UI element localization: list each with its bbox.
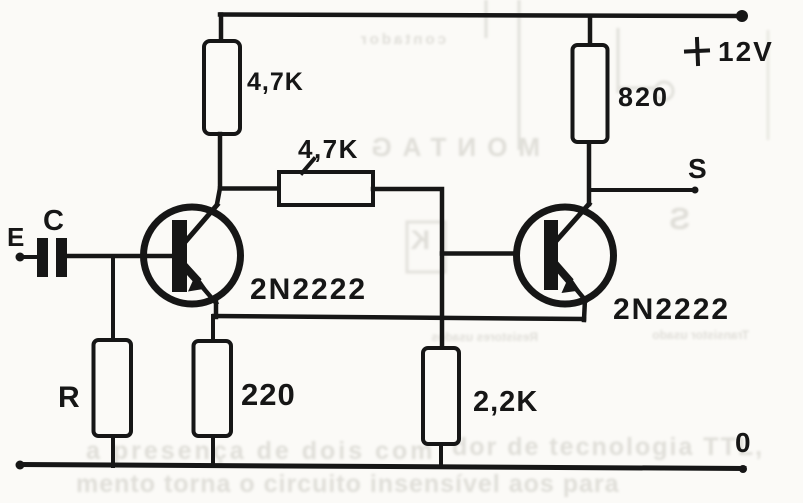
svg-text:2N2222: 2N2222 [250, 273, 367, 306]
svg-text:2N2222: 2N2222 [613, 293, 730, 326]
svg-text:E: E [7, 222, 24, 252]
svg-text:2,2K: 2,2K [473, 386, 538, 418]
svg-text:12V: 12V [718, 36, 774, 67]
svg-text:220: 220 [241, 377, 296, 412]
svg-text:C: C [43, 205, 64, 237]
svg-text:MONTAG: MONTAG [360, 132, 540, 162]
svg-text:contador: contador [358, 31, 446, 48]
svg-text:S: S [688, 153, 707, 184]
svg-text:4,7K: 4,7K [298, 134, 359, 164]
svg-text:4,7K: 4,7K [247, 68, 304, 96]
svg-text:K: K [410, 225, 430, 255]
svg-text:R: R [58, 381, 80, 414]
svg-text:Resistores usados: Resistores usados [431, 330, 538, 344]
svg-text:Transistor usado: Transistor usado [652, 328, 749, 342]
svg-text:820: 820 [618, 82, 669, 112]
svg-text:mento torna o circuito insensí: mento torna o circuito insensível aos pa… [76, 470, 620, 498]
svg-text:S: S [669, 201, 690, 236]
svg-text:a presença de dois com: a presença de dois com [86, 437, 435, 465]
svg-text:0: 0 [735, 427, 751, 458]
svg-text:dor de tecnologia TTL,: dor de tecnologia TTL, [452, 433, 764, 461]
